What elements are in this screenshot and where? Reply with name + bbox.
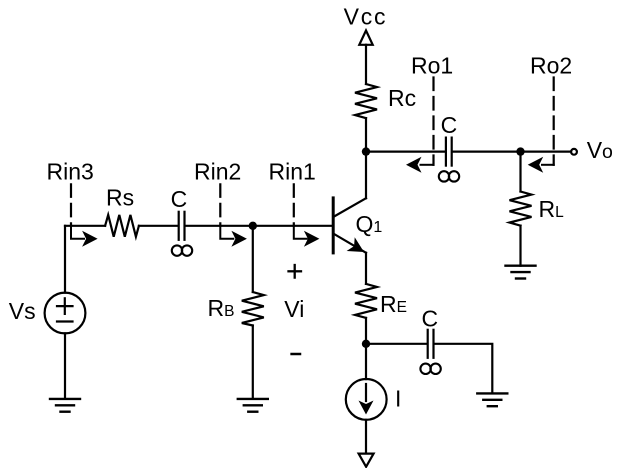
ground under RB bbox=[238, 399, 268, 412]
port Rin3 arrow elbow bbox=[71, 226, 98, 247]
wire emitter node to current source bbox=[365, 344, 367, 379]
wire base node to RB bbox=[252, 226, 254, 292]
svg-text:Vi: Vi bbox=[284, 296, 304, 322]
wire base node to Q1 base bbox=[253, 225, 332, 227]
resistor RB bbox=[208, 292, 264, 326]
port Ro1 dashed line bbox=[432, 78, 434, 165]
node output junction bbox=[516, 147, 524, 155]
node base junction bbox=[249, 222, 257, 230]
ground under Vs bbox=[50, 399, 80, 412]
svg-text:Rin2: Rin2 bbox=[194, 158, 241, 184]
source Vs bbox=[9, 293, 86, 334]
wire corner down to Vs bbox=[64, 226, 66, 293]
port Rin2 dashed line bbox=[219, 184, 221, 226]
wire output node to terminal bbox=[521, 151, 572, 153]
label Vi minus sign bbox=[292, 353, 300, 356]
svg-text:I: I bbox=[395, 386, 401, 412]
svg-text:Vs: Vs bbox=[9, 298, 36, 324]
svg-text:Rc: Rc bbox=[388, 85, 416, 111]
resistor RE bbox=[355, 284, 407, 318]
capacitor C3 with labels bbox=[420, 305, 440, 374]
label Vi plus sign bbox=[289, 265, 302, 278]
resistor RC bbox=[355, 84, 416, 118]
port Ro2 arrow elbow bbox=[528, 157, 554, 173]
wire RE to emitter node bbox=[365, 318, 367, 344]
wire collector vertical bbox=[365, 152, 367, 199]
wire capacitor C2 to output node bbox=[453, 151, 521, 153]
wire Vs to ground bbox=[64, 333, 66, 399]
port Ro1 arrow elbow bbox=[406, 157, 434, 173]
ground under C3 bbox=[477, 393, 507, 406]
wire current source to bottom arrow bbox=[365, 420, 367, 454]
svg-text:Vo: Vo bbox=[587, 137, 613, 163]
wire VCC to RC bbox=[365, 45, 367, 84]
resistor RL bbox=[510, 192, 565, 226]
resistor RS bbox=[105, 185, 139, 237]
port Rin3 dashed line bbox=[70, 184, 72, 226]
svg-text:C: C bbox=[171, 186, 188, 212]
svg-text:Ro2: Ro2 bbox=[530, 53, 572, 79]
capacitor C1 with labels bbox=[171, 186, 193, 256]
capacitor C2 with labels bbox=[439, 112, 459, 181]
wire RB to ground bbox=[252, 326, 254, 399]
wire capacitor C3 to ground corner bbox=[435, 344, 493, 394]
svg-text:Vcc: Vcc bbox=[344, 4, 388, 30]
terminal Vo open circle bbox=[571, 149, 577, 155]
wire emitter node to capacitor C3 bbox=[366, 343, 427, 345]
port Ro2 dashed line bbox=[553, 78, 555, 165]
wire RC to collector node bbox=[365, 118, 367, 152]
svg-text:C: C bbox=[441, 112, 458, 138]
wire emitter to RE bbox=[365, 253, 367, 284]
wire capacitor C1 to base node bbox=[186, 225, 253, 227]
transistor Q1 bbox=[333, 198, 382, 259]
port Rin1 dashed line bbox=[293, 184, 295, 226]
svg-text:C: C bbox=[422, 305, 439, 331]
port Rin2 arrow elbow bbox=[220, 226, 247, 247]
svg-text:Rs: Rs bbox=[106, 185, 134, 211]
wire RL to ground bbox=[519, 226, 521, 266]
wire RS to capacitor C1 bbox=[139, 225, 178, 227]
current source I bbox=[346, 379, 402, 420]
svg-text:Ro1: Ro1 bbox=[411, 53, 453, 79]
node collector junction bbox=[362, 147, 370, 155]
wire Vs corner to RS bbox=[65, 225, 105, 227]
node emitter junction bbox=[362, 340, 370, 348]
wire collector node to capacitor C2 bbox=[366, 151, 445, 153]
bottom arrow symbol bbox=[359, 454, 374, 467]
VCC arrow symbol bbox=[359, 31, 372, 45]
svg-text:Rin3: Rin3 bbox=[47, 158, 94, 184]
port Rin1 arrow elbow bbox=[294, 226, 320, 247]
wire output node to RL bbox=[519, 152, 521, 192]
svg-text:Rin1: Rin1 bbox=[269, 158, 316, 184]
ground under RL bbox=[506, 266, 536, 279]
